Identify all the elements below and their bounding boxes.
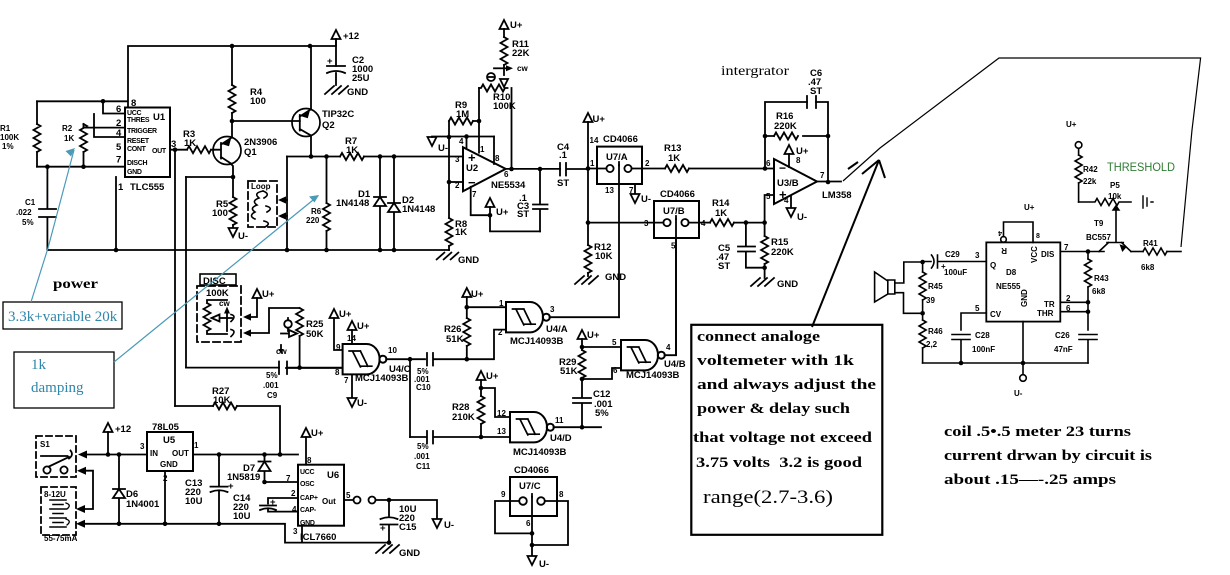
gate U4/C MCJ14093B — [343, 344, 387, 374]
wire U6 pin3 gnd stub — [301, 526, 303, 543]
svg-text:4: 4 — [998, 229, 1002, 236]
svg-text:1k: 1k — [31, 357, 47, 373]
svg-text:.001: .001 — [263, 381, 279, 390]
svg-text:.022: .022 — [16, 208, 32, 217]
wire callout thin lines — [843, 58, 1201, 247]
svg-text:6: 6 — [504, 170, 509, 179]
svg-text:7: 7 — [1064, 243, 1069, 252]
switch U7/A CD4066 box — [597, 147, 642, 184]
wire Loop vertical — [286, 157, 288, 251]
wire U7/A pin13 drop — [618, 165, 620, 317]
svg-text:2: 2 — [291, 489, 296, 498]
wire blue arrow to R6 — [114, 196, 318, 362]
wire C10C11 link vertical — [409, 359, 411, 437]
resistor R11 — [501, 37, 508, 65]
svg-text:1K: 1K — [455, 227, 467, 238]
svg-text:4: 4 — [701, 219, 706, 228]
svg-text:8: 8 — [1036, 233, 1040, 240]
svg-text:GND: GND — [399, 548, 420, 559]
svg-text:TRIGGER: TRIGGER — [127, 128, 157, 135]
wire blue arrow to R2 — [31, 150, 74, 302]
callout box 3.3k variable — [3, 302, 122, 329]
power +12 arrow — [332, 30, 341, 39]
svg-text:−: − — [779, 161, 786, 175]
resistor R41 — [1131, 251, 1143, 253]
svg-text:2: 2 — [645, 159, 650, 168]
svg-text:210K: 210K — [452, 412, 475, 423]
svg-text:51K: 51K — [560, 366, 578, 377]
wire U4/C pin8 — [286, 367, 343, 369]
svg-text:6k8: 6k8 — [1141, 263, 1155, 272]
svg-text:5: 5 — [766, 192, 771, 201]
wire C9 row — [186, 367, 343, 369]
svg-text:U7/C: U7/C — [519, 481, 541, 492]
capacitor C10 — [427, 353, 466, 366]
svg-text:OUT: OUT — [172, 449, 189, 458]
diode D1 1N4148 — [374, 157, 386, 251]
wire U4/B output up to U7/B pin5 — [665, 238, 676, 355]
svg-text:13: 13 — [605, 186, 614, 195]
svg-text:1: 1 — [480, 145, 485, 154]
ground GND R8 rail-end — [436, 252, 459, 260]
svg-text:1N5819: 1N5819 — [227, 472, 260, 483]
svg-text:3.75 volts 3.2 is good: 3.75 volts 3.2 is good — [696, 455, 862, 471]
svg-text:ST: ST — [810, 86, 822, 97]
svg-text:2: 2 — [498, 328, 503, 337]
svg-text:damping: damping — [31, 380, 84, 396]
resistor R2 — [83, 124, 85, 167]
gate U4/B MCJ14093B — [621, 340, 665, 370]
capacitor C13 — [211, 455, 228, 524]
svg-text:CD4066: CD4066 — [603, 134, 638, 145]
svg-text:U+: U+ — [496, 207, 509, 218]
svg-text:7: 7 — [344, 376, 349, 385]
gate U4/A MCJ14093B — [506, 302, 550, 332]
ground GND R12 — [575, 276, 598, 284]
svg-text:4: 4 — [666, 343, 671, 352]
svg-text:current drwan by circuit is: current drwan by circuit is — [944, 448, 1152, 464]
resistor R12 — [587, 169, 589, 246]
power V- U7/A pin7 — [634, 184, 636, 194]
svg-text:1: 1 — [590, 159, 595, 168]
svg-text:and always adjust the: and always adjust the — [697, 377, 877, 393]
power V+ U4/B — [578, 330, 587, 339]
resistor R43 — [1087, 252, 1089, 303]
svg-text:8: 8 — [131, 98, 136, 109]
svg-text:3: 3 — [140, 442, 145, 451]
svg-text:cw: cw — [219, 299, 230, 308]
svg-text:1N4001: 1N4001 — [126, 499, 160, 510]
wire D8 pin2 pin6 rows — [1060, 302, 1088, 330]
svg-text:about .15—-.25 amps: about .15—-.25 amps — [944, 472, 1116, 488]
svg-text:1: 1 — [499, 299, 504, 308]
svg-text:47nF: 47nF — [1054, 345, 1073, 354]
capacitor C11 — [410, 431, 481, 444]
svg-text:C10: C10 — [416, 383, 431, 392]
svg-text:5: 5 — [346, 491, 351, 500]
svg-text:U4/D: U4/D — [550, 433, 572, 444]
svg-text:220K: 220K — [771, 247, 794, 258]
svg-text:1: 1 — [118, 182, 124, 193]
svg-text:voltemeter with 1k: voltemeter with 1k — [697, 353, 855, 369]
wire U4/D output — [554, 426, 601, 428]
labels section E — [203, 276, 324, 406]
svg-text:Loop: Loop — [251, 182, 271, 191]
svg-text:+12: +12 — [115, 424, 131, 435]
terminal U+ circle R42 — [1075, 142, 1082, 149]
power V+ R26 — [462, 288, 471, 297]
svg-text:U7/A: U7/A — [606, 152, 628, 163]
svg-text:TIP32C: TIP32C — [322, 109, 354, 120]
resistor R8 — [446, 218, 453, 246]
wire U4/C output — [386, 358, 425, 360]
switch S1 dashed box — [36, 436, 76, 477]
diode D6 1N4001 — [113, 455, 125, 524]
svg-text:7: 7 — [116, 155, 121, 166]
svg-text:GND: GND — [300, 520, 315, 527]
svg-text:C11: C11 — [416, 462, 431, 471]
battery cells — [50, 500, 66, 527]
svg-text:4: 4 — [784, 196, 789, 205]
power V- U7/C — [528, 556, 537, 565]
svg-text:1N4148: 1N4148 — [402, 204, 435, 215]
svg-text:U-: U- — [238, 231, 248, 242]
svg-text:coil .5•.5 meter 23 turns: coil .5•.5 meter 23 turns — [944, 424, 1131, 440]
resistor R14 — [699, 222, 710, 224]
wire U1 pin6 pin2 pin4 elbows — [84, 101, 126, 137]
svg-text:DIS: DIS — [1041, 250, 1055, 259]
svg-text:U+: U+ — [1066, 120, 1077, 129]
svg-text:GND: GND — [127, 169, 142, 176]
label DISC boxed — [200, 274, 236, 285]
power V- U2 pin4 — [428, 137, 437, 146]
svg-text:ST: ST — [557, 178, 569, 189]
labels U2 area — [438, 20, 570, 238]
wire U4/B pin5 — [582, 346, 621, 348]
svg-text:10: 10 — [388, 346, 397, 355]
svg-text:−: − — [468, 175, 476, 190]
svg-text:power & delay such: power & delay such — [697, 401, 850, 417]
svg-text:+: + — [380, 523, 386, 534]
svg-text:R2: R2 — [62, 124, 73, 133]
svg-text:GND: GND — [458, 255, 479, 266]
svg-text:Out: Out — [322, 497, 336, 506]
svg-text:VCC: VCC — [1030, 246, 1039, 263]
svg-text:that voltage not exceed: that voltage not exceed — [693, 430, 872, 446]
switch U7/B CD4066 box — [654, 201, 699, 238]
svg-text:THR: THR — [1037, 309, 1054, 318]
capacitor C12 — [573, 379, 591, 427]
svg-text:R45: R45 — [928, 282, 943, 291]
svg-text:10U: 10U — [185, 496, 203, 507]
svg-text:NE555: NE555 — [996, 282, 1021, 291]
svg-text:220: 220 — [306, 216, 320, 225]
resistor R25 — [296, 308, 303, 336]
power V- U4/C pin7 — [351, 374, 353, 398]
svg-text:6k8: 6k8 — [1092, 287, 1106, 296]
svg-text:RESET: RESET — [127, 138, 150, 145]
wire C10 to U4/A pin2 — [467, 330, 506, 360]
svg-text:ICL7660: ICL7660 — [300, 532, 336, 543]
labels top-left — [0, 31, 479, 266]
svg-text:range(2.7-3.6): range(2.7-3.6) — [703, 487, 833, 508]
svg-text:U-: U- — [1014, 389, 1023, 398]
wire DISCH row — [37, 166, 125, 168]
power V+ DISC — [253, 289, 262, 298]
wire R25 top loop — [248, 308, 300, 333]
svg-text:NE5534: NE5534 — [491, 180, 526, 191]
power +12 arrow supply — [104, 423, 113, 432]
svg-text:ST: ST — [517, 209, 529, 220]
wire Q2 collector down — [310, 136, 312, 157]
wire U4/D pin12 elbow — [481, 388, 510, 417]
svg-text:GND: GND — [605, 272, 626, 283]
wire pin4 pin8 stubs — [467, 137, 495, 165]
switch U7/C CD4066 box — [510, 477, 557, 516]
svg-text:GND: GND — [777, 279, 798, 290]
resistor R4 — [231, 46, 233, 121]
callout box 1k damping — [14, 352, 114, 408]
svg-text:cw: cw — [517, 64, 528, 73]
svg-text:THRES: THRES — [127, 117, 150, 124]
svg-text:U6: U6 — [327, 470, 339, 481]
symbol cw small arrow — [280, 345, 282, 351]
wire U7/B pin5 drop — [675, 219, 677, 355]
svg-text:1K: 1K — [64, 134, 74, 143]
potentiometer DISC zigzag — [204, 300, 228, 334]
power V+ U2 pin7 — [486, 198, 495, 207]
svg-text:100uF: 100uF — [944, 268, 967, 277]
op-amp U3/B LM358 — [774, 159, 817, 204]
power V+ arrow R11 — [500, 20, 509, 29]
svg-text:LM358: LM358 — [822, 190, 852, 201]
svg-text:3: 3 — [455, 155, 460, 164]
svg-text:2,2: 2,2 — [926, 340, 938, 349]
svg-text:100K: 100K — [206, 288, 229, 299]
svg-text:Q: Q — [990, 261, 996, 270]
resistor R45 — [922, 262, 924, 313]
svg-text:.001: .001 — [414, 452, 430, 461]
svg-text:1N4148: 1N4148 — [336, 198, 369, 209]
wire U1 OUT pin3 — [170, 149, 187, 151]
resistor R27 — [213, 403, 237, 410]
svg-text:3: 3 — [644, 219, 649, 228]
svg-text:U5: U5 — [163, 435, 176, 446]
IC U6 ICL7660 box — [298, 465, 344, 526]
optocoupler Loop dashed box — [248, 181, 277, 227]
capacitor C14 wiring — [260, 498, 298, 512]
svg-text:51K: 51K — [446, 334, 464, 345]
ground GND C15 — [376, 545, 399, 553]
svg-text:U-: U- — [357, 398, 367, 409]
svg-text:7: 7 — [820, 171, 825, 180]
wire OSC pin7 row — [265, 481, 299, 483]
wire bottom minus rail — [84, 524, 389, 543]
wire U2 pin7 V+ loop — [471, 187, 540, 232]
battery dashed box 8-12V — [41, 487, 76, 535]
svg-text:5: 5 — [612, 338, 617, 347]
svg-text:U+: U+ — [587, 330, 600, 341]
capacitor C2 — [327, 66, 345, 85]
svg-text:U+: U+ — [1024, 203, 1035, 212]
svg-text:7: 7 — [286, 474, 291, 483]
svg-text:R46: R46 — [928, 327, 943, 336]
svg-text:U+: U+ — [486, 371, 499, 382]
svg-text:3: 3 — [293, 527, 298, 536]
svg-text:6: 6 — [613, 366, 618, 375]
wire Loop arrows — [281, 200, 287, 216]
ground GND C2 — [325, 86, 348, 94]
trimmer DISC wiper — [220, 317, 233, 319]
IC U1 TLC555 box — [125, 108, 170, 178]
svg-text:5%: 5% — [22, 218, 34, 227]
svg-text:MCJ14093B: MCJ14093B — [513, 447, 566, 458]
labels section H — [926, 120, 1175, 398]
wire U5 GND pin2 — [164, 471, 166, 524]
capacitor C26 — [1079, 335, 1097, 364]
svg-text:10K: 10K — [595, 251, 613, 262]
svg-text:CV: CV — [990, 310, 1002, 319]
capacitor C1 — [39, 167, 56, 250]
svg-text:3.3k+variable 20k: 3.3k+variable 20k — [8, 309, 118, 325]
svg-text:10k: 10k — [1108, 192, 1122, 201]
svg-text:8: 8 — [495, 154, 500, 163]
svg-text:3: 3 — [550, 305, 555, 314]
labels section D — [335, 289, 686, 570]
capacitor C28 — [952, 313, 986, 363]
power V- R5 — [229, 228, 238, 237]
svg-text:1M: 1M — [456, 109, 469, 120]
resistor R26 — [466, 307, 468, 359]
node note box — [691, 325, 882, 535]
power V+ U6 pin8 — [302, 428, 311, 437]
wire U3B pin5 — [765, 195, 774, 223]
svg-text:22K: 22K — [512, 48, 530, 59]
svg-text:25U: 25U — [352, 73, 370, 84]
wire OUT to R27 vertical — [174, 150, 176, 406]
wire D8 GND pin — [1022, 322, 1024, 363]
IC U1 inner labels — [116, 104, 167, 193]
potentiometer R10 zigzag — [479, 85, 508, 92]
svg-text:CAP+: CAP+ — [300, 495, 318, 502]
svg-text:U2: U2 — [466, 163, 478, 174]
svg-text:22k: 22k — [1083, 177, 1097, 186]
svg-text:Q2: Q2 — [322, 120, 335, 131]
svg-text:4: 4 — [459, 137, 464, 146]
capacitor C9 — [279, 362, 287, 375]
svg-text:1: 1 — [194, 441, 199, 450]
svg-text:2: 2 — [1066, 294, 1071, 303]
svg-text:ST: ST — [718, 261, 730, 272]
svg-text:DISC: DISC — [203, 276, 226, 287]
capacitor C15 — [381, 500, 398, 543]
resistor R16 — [774, 133, 798, 140]
svg-text:6: 6 — [116, 104, 121, 115]
svg-text:R1: R1 — [0, 124, 11, 133]
svg-text:11: 11 — [555, 416, 564, 425]
wire U7/C pin6 — [531, 497, 533, 556]
svg-text:R42: R42 — [1083, 165, 1098, 174]
resistor R13 — [642, 168, 665, 170]
potentiometer DISC dashed box — [197, 286, 241, 342]
svg-text:39: 39 — [926, 296, 935, 305]
svg-text:C29: C29 — [945, 250, 960, 259]
wire U3B output — [817, 181, 841, 183]
svg-text:8: 8 — [796, 156, 801, 165]
power V+ U4/C pin9 — [330, 309, 339, 318]
svg-text:R: R — [1001, 246, 1007, 255]
svg-text:9: 9 — [501, 490, 506, 499]
diode D7 1N5819 — [259, 455, 271, 483]
svg-text:6: 6 — [1066, 304, 1071, 313]
gate U4/D MCJ14093B — [510, 412, 554, 442]
svg-text:U+: U+ — [262, 289, 275, 300]
capacitor C5 — [738, 223, 765, 268]
resistor R46 — [922, 313, 924, 363]
svg-text:1K: 1K — [715, 208, 727, 219]
svg-text:1K: 1K — [346, 145, 358, 156]
svg-text:5%: 5% — [595, 408, 609, 419]
diode D2 1N4148 — [388, 157, 400, 251]
svg-text:CD4066: CD4066 — [514, 465, 549, 476]
svg-text:TR: TR — [1044, 300, 1055, 309]
transistor Q1 2N3906 — [213, 137, 241, 165]
svg-text:DISCH: DISCH — [127, 160, 148, 167]
resistor R28 — [480, 388, 482, 437]
power V+ R28 — [477, 371, 486, 380]
symbol P5 right end mark — [1143, 196, 1153, 208]
svg-text:THRESHOLD: THRESHOLD — [1107, 160, 1175, 174]
symbol circled minus — [487, 73, 495, 81]
svg-text:1%: 1% — [2, 142, 14, 151]
wire bottom rail — [47, 249, 449, 251]
svg-text:U-: U- — [641, 194, 651, 205]
svg-text:+: + — [270, 497, 276, 508]
svg-text:100: 100 — [250, 96, 266, 107]
svg-text:9: 9 — [336, 343, 341, 352]
svg-text:8: 8 — [307, 456, 312, 465]
svg-text:IN: IN — [150, 449, 158, 458]
svg-text:U-: U- — [797, 212, 807, 223]
transistor T9 BC557 — [1099, 210, 1131, 252]
svg-text:12: 12 — [497, 409, 506, 418]
svg-text:U+: U+ — [510, 20, 523, 31]
resistor R9 — [449, 118, 473, 125]
svg-text:P5: P5 — [1110, 181, 1120, 190]
capacitor C6 — [807, 96, 816, 108]
svg-text:4: 4 — [292, 505, 297, 514]
svg-text:+: + — [941, 262, 946, 271]
node OUT junction — [173, 147, 178, 152]
svg-text:U1: U1 — [153, 112, 166, 123]
svg-text:U-: U- — [444, 520, 454, 531]
svg-text:55-75mA: 55-75mA — [44, 534, 78, 543]
svg-text:5: 5 — [975, 304, 980, 313]
resistor R3 — [187, 146, 211, 153]
svg-text:MCJ14093B: MCJ14093B — [510, 336, 563, 347]
wire U2 -input row — [449, 181, 463, 183]
power V+ U7/A pin14 — [584, 113, 593, 122]
labels section C — [590, 63, 852, 290]
svg-text:CONT: CONT — [127, 146, 147, 153]
svg-text:CD4066: CD4066 — [660, 189, 695, 200]
svg-text:2: 2 — [455, 181, 460, 190]
svg-text:OUT: OUT — [152, 148, 167, 155]
resistor R7 — [340, 153, 364, 160]
label Loop — [250, 182, 274, 190]
svg-text:U+: U+ — [311, 428, 324, 439]
wire R7 row — [287, 156, 463, 158]
